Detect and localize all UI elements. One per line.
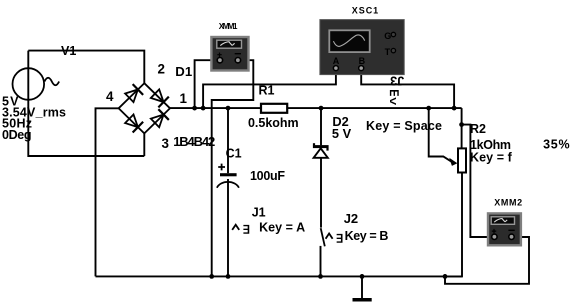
wire: oscilloscope channel A to rail [203,71,336,109]
capacitor C1 polarity plus [218,164,225,171]
junction: rail XMM1 plus [192,106,197,111]
resistor R1 body [261,104,287,113]
wire: XMM2 plus lead [462,125,492,237]
wire: R2 bottom to bottom rail corner [445,173,462,277]
bridge diode bottom-left (4 to 3) [124,113,143,132]
svg-text:T: T [385,47,391,57]
junction: bottom rail C1 [226,274,231,279]
wire: bridge bottom stub [143,133,145,156]
wire: bottom rail [96,275,463,277]
potentiometer R2 wiper arrowhead [449,158,457,166]
svg-text:∃: ∃ [243,224,251,236]
svg-text:35%: 35% [543,138,570,152]
svg-text:B: B [359,56,366,66]
svg-text:XMM2: XMM2 [494,198,522,208]
capacitor C1 top plate [220,173,237,176]
svg-text:J1: J1 [252,206,266,220]
svg-text:1B4B42: 1B4B42 [173,134,215,149]
svg-text:C1: C1 [226,146,242,160]
svg-text:2: 2 [158,62,165,77]
svg-text:5 V: 5 V [332,126,352,141]
svg-text:XSC1: XSC1 [352,5,378,15]
multimeter XMM2 box [488,213,521,245]
bridge diode bottom-right (3 to 1) [150,109,169,128]
wire: oscilloscope channel B via switch J3 to rail [361,71,454,109]
svg-text:Key = A: Key = A [259,220,305,234]
wire: C1 branch upper segment [227,108,229,173]
svg-text:R2: R2 [470,122,486,136]
svg-text:^: ^ [387,97,403,105]
multimeter XMM1 box [211,37,248,71]
zener diode D2 triangle [314,148,328,158]
capacitor C1 curved bottom plate [217,182,239,188]
svg-text:R1: R1 [259,84,275,98]
junction: rail C1 [226,106,231,111]
switch J1 key glyphs [232,225,239,230]
bridge diode top-right (2 to 1) [150,88,169,107]
switch J2 blade [321,228,325,246]
svg-text:XMM1: XMM1 [219,22,238,31]
wire: XMM1 plus lead down to rail [195,60,217,108]
wire: J2 to bottom rail [320,246,322,277]
oscilloscope XSC1 box [320,20,404,75]
AC source V1 sine squiggle [45,78,60,86]
svg-text:A: A [333,56,340,66]
wire: D2 branch upper segment [320,108,322,145]
svg-text:Key = B: Key = B [345,229,389,243]
svg-text:0Deg: 0Deg [2,128,32,142]
wire: R2 wiper feed from rail [429,108,452,162]
svg-text:D1: D1 [175,64,192,79]
junction: R2 top node [459,122,464,127]
wire: D2 to J2 segment [320,158,322,228]
bridge diode top-left (4 to 2) [124,84,143,103]
svg-text:100uF: 100uF [250,169,285,183]
junction: rail scope B [452,106,457,111]
junction: bottom rail XMM2 [443,274,448,279]
wire: rail corner down to R2 top junction [461,108,463,148]
svg-text:Key = Space: Key = Space [366,119,442,133]
svg-text:V1: V1 [61,44,76,58]
svg-text:4: 4 [106,89,114,104]
junction: bottom rail ground [360,274,365,279]
svg-text:1: 1 [180,91,188,106]
diode bridge D1 diamond [119,83,170,133]
svg-text:G: G [384,31,391,41]
junction: bottom rail XMM1 minus [209,274,214,279]
wire: main output rail from bridge vertex 1 to R2 corner [170,107,462,109]
wire: V1 vertical through source, top rail to bottom corner [28,51,144,156]
wire: top rail V1 to bridge top stub [28,51,144,84]
junction: rail wiper feed [426,106,431,111]
svg-text:J2: J2 [344,211,358,226]
junction: rail D2 [319,106,324,111]
svg-text:0.5kohm: 0.5kohm [248,116,299,130]
wire: bridge left vertex to left vertical down to bottom rail [96,108,119,276]
AC source V1 circle [12,68,44,100]
svg-text:∃: ∃ [336,233,344,245]
wire: XMM1 minus lead right-down-left-down to bottom rail [212,60,254,276]
wire: XMM2 minus lead loop [445,237,529,284]
svg-text:Key = f: Key = f [470,150,513,164]
zener diode D2 cathode bar [313,145,329,148]
svg-text:∃: ∃ [389,89,401,97]
svg-text:3: 3 [162,136,169,151]
junction: bottom rail J2 [318,274,323,279]
wire: C1 branch lower segment to bottom rail [227,179,229,276]
switch J2 key glyphs [326,234,333,239]
svg-text:J3: J3 [390,74,404,88]
potentiometer R2 body [458,148,466,172]
ground symbol [361,276,363,298]
junction: rail scope A [201,106,206,111]
